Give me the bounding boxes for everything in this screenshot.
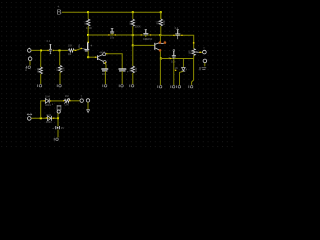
resistor R3: [159, 19, 162, 26]
svg-text:+: +: [90, 44, 92, 48]
capacitor C8 (on bus, col H): [168, 50, 176, 64]
capacitor C4: [141, 30, 152, 41]
capacitor C2: [108, 28, 116, 39]
wire col F mid: [132, 26, 134, 45]
wire C1 to junction B: [54, 49, 68, 51]
wire battery to ground: [57, 130, 59, 138]
pin Q2 emitter: [159, 49, 162, 52]
svg-text:B: B: [57, 7, 62, 16]
wire col E to ground: [121, 71, 123, 84]
pin Q2 collector: [159, 41, 162, 44]
svg-text:10K: 10K: [162, 20, 166, 25]
capacitor C7: [173, 26, 182, 39]
svg-text:+: +: [127, 69, 129, 73]
junction node F-35: [132, 34, 134, 36]
output jack sleeve terminal: [203, 59, 207, 63]
wire junction to battery: [57, 118, 59, 126]
wire sleeve stub: [29, 61, 31, 66]
wire pot wiper to jack: [200, 51, 203, 53]
wire ring to junction: [57, 113, 59, 118]
svg-text:10u: 10u: [102, 72, 107, 76]
diode D3 (in volume row): [44, 95, 52, 107]
wire col F lower: [132, 45, 134, 66]
wire input row: [31, 49, 48, 51]
wire pot col to ground: [192, 59, 194, 85]
wire col C upper: [87, 12, 89, 19]
battery BT1: [52, 126, 64, 130]
capacitor C5 (col D): [101, 69, 108, 76]
pin Q1 collector: [103, 53, 106, 56]
ground col D: [103, 85, 107, 88]
ground col A: [38, 84, 42, 87]
svg-text:10u: 10u: [77, 44, 81, 49]
switch box: [57, 106, 61, 110]
wire sleeve stub down: [204, 63, 206, 66]
junction node B-in: [59, 50, 61, 52]
wire volume row left: [51, 100, 64, 102]
wire col B to ground: [59, 72, 61, 84]
junction node C-57: [87, 56, 89, 58]
svg-text:R2: R2: [128, 21, 132, 25]
svg-text:4001: 4001: [46, 120, 52, 124]
diode D2: [46, 113, 54, 124]
battery clip terminal: [28, 117, 32, 121]
svg-text:1N: 1N: [175, 67, 178, 70]
potentiometer VR2: [63, 94, 71, 106]
wire sleeve stub down: [87, 102, 89, 109]
junction node G-58: [160, 58, 162, 60]
svg-text:R7: R7: [55, 67, 59, 71]
ground col J: [189, 85, 193, 88]
ground col F: [130, 85, 134, 88]
svg-text:0.1: 0.1: [175, 26, 179, 30]
wire volume row right: [70, 100, 79, 102]
svg-text:2N390: 2N390: [145, 37, 153, 41]
ground glyph output jack: [200, 67, 206, 70]
wire Q2 base: [133, 44, 155, 46]
resistor R5: [131, 66, 134, 73]
svg-text:1M: 1M: [65, 94, 69, 98]
ground col I: [177, 85, 181, 88]
svg-text:R5: R5: [128, 68, 132, 72]
wire col G to node: [160, 26, 162, 35]
svg-text:9V: 9V: [61, 126, 64, 130]
resistor R2: [131, 19, 134, 26]
svg-text:2M2: 2M2: [36, 67, 40, 73]
wire bias row y35: [88, 34, 160, 36]
node B+ supply label: [57, 5, 62, 17]
svg-text:R1: R1: [83, 21, 87, 25]
annotation arrow at battery clip: [27, 114, 32, 116]
junction node C-35: [87, 34, 89, 36]
wire y35 right segment: [160, 35, 193, 48]
svg-text:1N4: 1N4: [45, 95, 50, 99]
pin Q1 emitter: [103, 61, 106, 64]
ground col B: [57, 84, 61, 87]
wire Q2 emitter stub: [159, 51, 161, 58]
resistor R6: [39, 67, 42, 74]
wire ground bus y58.5: [160, 58, 193, 60]
svg-text:0.1: 0.1: [47, 39, 51, 43]
battery top terminal ring: [57, 110, 60, 113]
svg-text:10K: 10K: [68, 44, 73, 48]
ground input sleeve: [26, 66, 30, 69]
wire col F upper: [132, 12, 134, 19]
wire link to cap C3: [82, 48, 87, 51]
ground col H: [171, 85, 175, 88]
wire col G to ground: [159, 59, 161, 86]
wire col K riser: [41, 101, 44, 118]
svg-text:1M: 1M: [191, 51, 194, 54]
junction rail col F: [132, 11, 134, 13]
svg-text:10K: 10K: [134, 67, 138, 72]
bottom jack sleeve terminal: [86, 99, 89, 102]
wire col F to ground: [132, 73, 134, 84]
diode D1 (col I): [175, 59, 188, 86]
input jack tip terminal: [29, 48, 30, 49]
wire col C to node: [87, 26, 89, 35]
junction node A-in: [40, 50, 42, 52]
ground col G: [158, 85, 162, 88]
svg-text:100K: 100K: [86, 26, 92, 30]
wire pot bottom to bus: [193, 55, 195, 58]
resistor R4 (series input): [68, 49, 74, 52]
wire battery row y118.3: [31, 117, 58, 119]
svg-text:4001: 4001: [45, 103, 51, 107]
junction node K-118: [40, 117, 42, 119]
potentiometer VR1: [188, 42, 199, 55]
wire Q1 base: [88, 56, 97, 58]
resistor R1: [86, 19, 89, 26]
wire col A to ground: [40, 74, 42, 84]
capacitor C1: [47, 39, 54, 54]
transistor Q1: [98, 50, 106, 61]
resistor R7: [59, 65, 62, 72]
ground battery: [54, 138, 58, 141]
bottom jack tip terminal: [80, 99, 83, 102]
ground arrow bottom jack: [87, 110, 90, 113]
svg-text:R4: R4: [68, 52, 72, 56]
wire B+ rail: [62, 12, 161, 19]
wire Q2 collector stub: [159, 35, 161, 42]
svg-text:1M: 1M: [62, 67, 66, 71]
capacitor C6 (col E): [119, 69, 129, 73]
junction node G-35: [159, 34, 161, 36]
label near input: [24, 67, 28, 71]
wire col D to ground: [104, 71, 106, 84]
svg-text:10u: 10u: [110, 36, 115, 40]
wire Q1 emitter to col D: [105, 62, 106, 63]
pin Q2 aux: [164, 41, 167, 44]
junction node L-118: [57, 117, 59, 119]
capacitor C3 (col C electrolytic): [77, 35, 93, 57]
transistor Q2: [145, 37, 164, 50]
input jack sleeve terminal: [30, 56, 31, 57]
output jack tip terminal: [203, 50, 207, 54]
wire col B upper: [59, 51, 61, 66]
ground col E: [119, 85, 123, 88]
junction rail col C: [87, 11, 89, 13]
junction rail corner: [160, 11, 162, 13]
wire Q1 collector to col E: [106, 53, 107, 54]
wire col A upper: [40, 51, 42, 68]
svg-text:1M: 1M: [24, 67, 28, 71]
svg-text:R3: R3: [155, 21, 159, 25]
wire col G upper: [160, 12, 162, 19]
wire col H to ground: [173, 59, 175, 85]
junction node F-45: [132, 44, 134, 46]
svg-text:100K: 100K: [135, 24, 141, 28]
svg-text:LIN: LIN: [65, 103, 69, 107]
wire input to C3: [73, 48, 82, 50]
